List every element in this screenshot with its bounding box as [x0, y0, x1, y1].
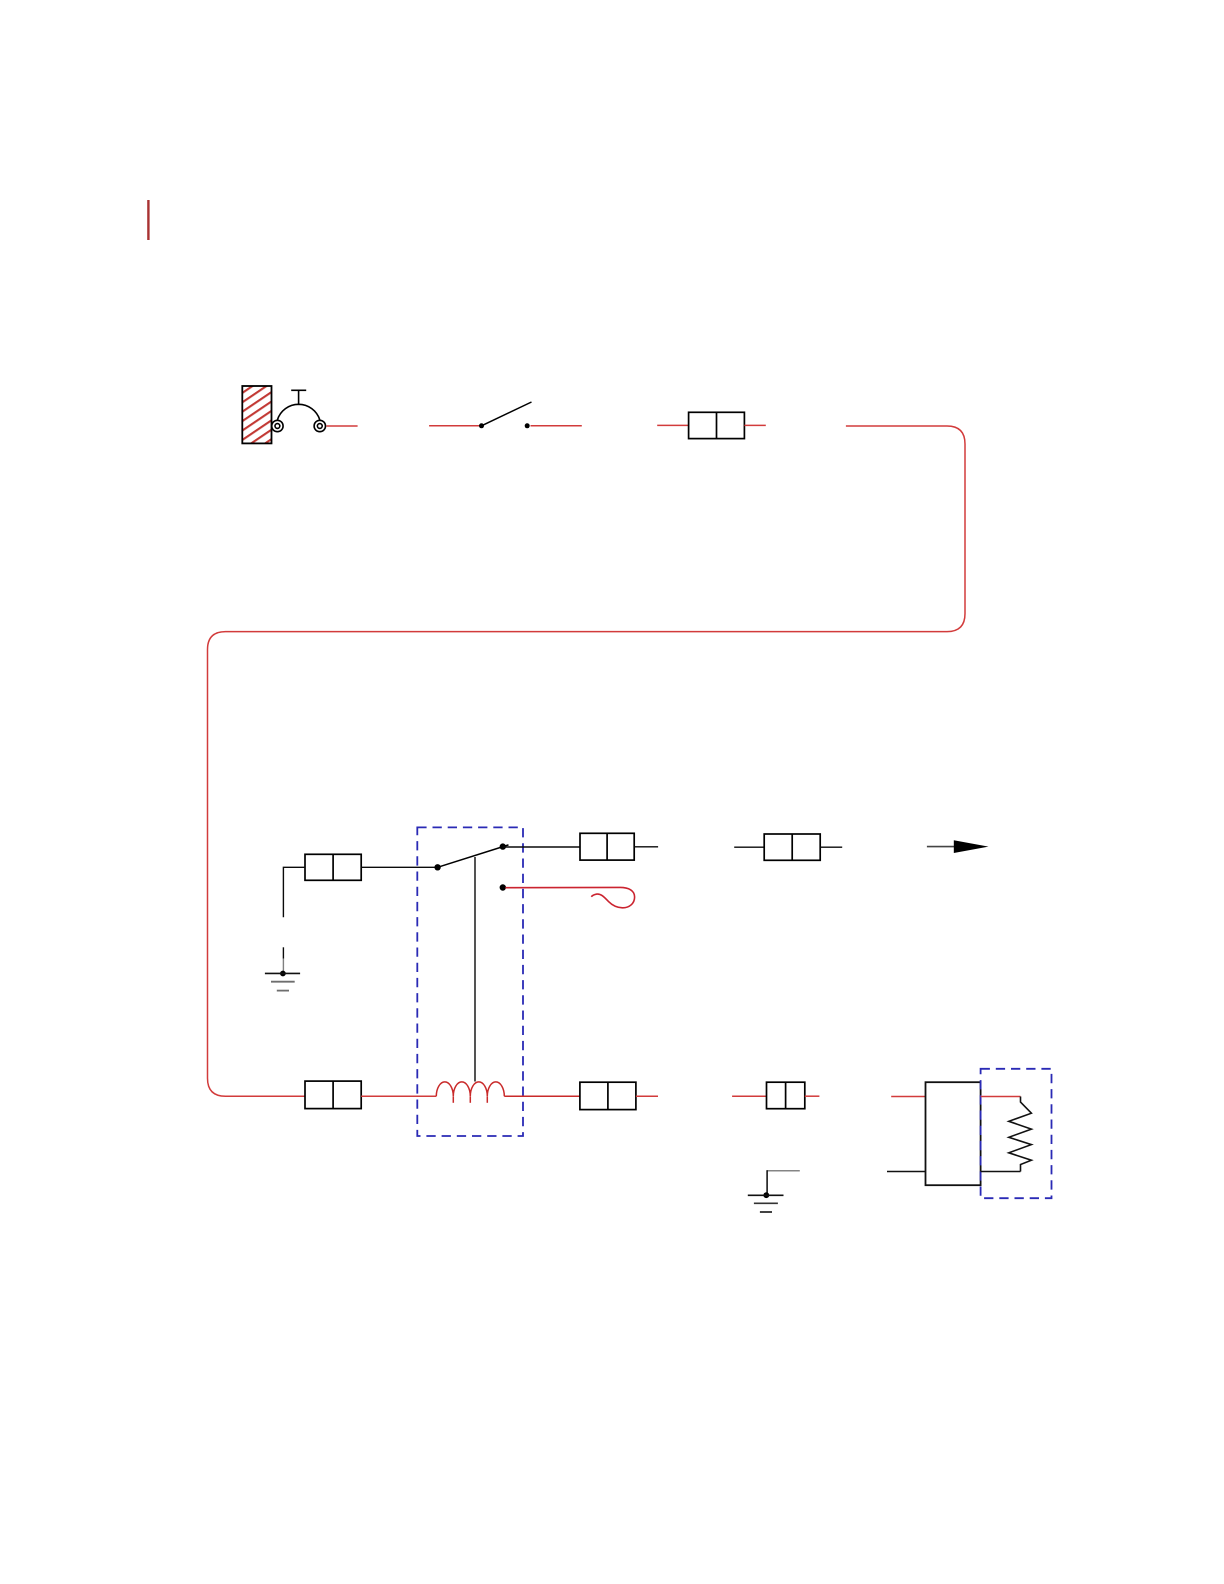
wire battery to switch: [326, 425, 357, 427]
wire solenoid bottom-left lead: [887, 1171, 926, 1173]
wire C4 left lead: [734, 846, 764, 848]
battery terminal ring right: [314, 420, 325, 431]
wire C3 right lead: [634, 846, 658, 848]
wire C2 to relay common: [361, 866, 437, 868]
pigtail wire (unconnected lead with curl): [505, 887, 634, 907]
wire resistor bottom to solenoid: [981, 1171, 1021, 1173]
connector C3 (two-cell box): [580, 833, 634, 860]
fuse F1 (two-cell box): [689, 412, 745, 438]
connector C6 (two-cell box): [580, 1082, 636, 1109]
off-page arrow: [927, 840, 989, 853]
battery terminal ring left: [272, 420, 283, 431]
resistor module dashed outline: [981, 1069, 1052, 1198]
wire fuse left lead: [657, 424, 688, 426]
connector C7 (small two-cell box): [767, 1082, 805, 1109]
wire C4 right lead: [820, 846, 842, 848]
relay common contact dot: [434, 864, 440, 870]
feed wire (long run right, down, left, down to lower row): [208, 426, 966, 1096]
wire C2 to ground run: [283, 867, 305, 917]
jumper strap arc with T-handle: [277, 390, 319, 420]
wire C7 left lead: [732, 1095, 766, 1097]
ground G2: [748, 1192, 784, 1212]
relay K1 (dashed outline): [417, 827, 523, 1136]
wire solenoid to resistor top: [981, 1096, 1021, 1098]
relay armature blade: [438, 845, 509, 867]
wire C5 to coil: [361, 1095, 436, 1097]
wire solenoid feed lead: [891, 1096, 925, 1098]
wire coil to C6: [504, 1095, 580, 1097]
connector C4 (two-cell box): [764, 834, 820, 860]
relay coil actuating link: [474, 857, 476, 1082]
connector C2 (two-cell box, relay control): [305, 854, 361, 880]
revision change bar: [147, 200, 149, 240]
wire C7 right lead: [805, 1095, 820, 1097]
switch S1 (open blade): [479, 402, 532, 428]
relay coil L1 (inductor): [436, 1082, 504, 1096]
wire switch left lead: [429, 425, 481, 427]
wire ground stub G2: [767, 1170, 799, 1172]
wire fuse right lead: [744, 424, 765, 426]
relay spare contact dot: [500, 884, 506, 890]
wire C6 right lead: [636, 1095, 658, 1097]
ground G1: [265, 971, 300, 991]
resistor R1 (zigzag): [1009, 1097, 1032, 1172]
relay NO contact dot: [500, 843, 506, 849]
wire relay NO contact to connector: [503, 846, 580, 848]
connector C5 (two-cell box, lower row left): [305, 1081, 361, 1109]
battery B1 (hatched block): [242, 386, 271, 443]
solenoid M1 (block): [926, 1082, 981, 1185]
wire switch right lead: [531, 425, 582, 427]
wire ground drop segment: [282, 947, 284, 958]
coil loop tails: [453, 1096, 487, 1102]
